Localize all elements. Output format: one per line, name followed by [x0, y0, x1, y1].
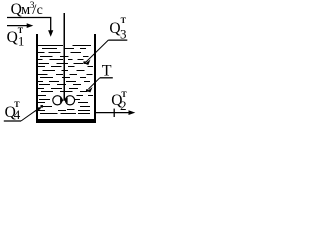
- svg-text:T: T: [102, 63, 112, 80]
- svg-text:2: 2: [120, 98, 127, 113]
- svg-text:Q: Q: [7, 29, 18, 46]
- svg-text:3: 3: [120, 26, 127, 41]
- svg-text:4: 4: [14, 107, 21, 122]
- svg-text:с: с: [37, 3, 43, 18]
- svg-text:T: T: [121, 16, 127, 25]
- svg-text:1: 1: [18, 33, 25, 48]
- svg-text:Q: Q: [109, 20, 120, 37]
- svg-text:м: м: [21, 2, 30, 18]
